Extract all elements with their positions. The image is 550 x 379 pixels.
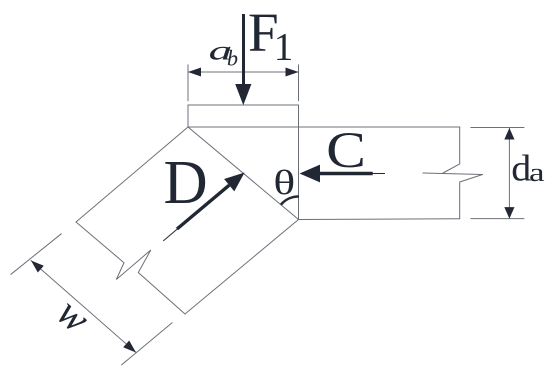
cap plate top edge: [188, 104, 299, 106]
cap plate left edge: [187, 105, 189, 127]
angle theta arc: [281, 196, 299, 204]
force D arrow: [163, 173, 244, 241]
force F1 arrow: [235, 14, 251, 105]
diagonal end face line: [188, 127, 299, 220]
diagonal member upper-left edge: [76, 127, 188, 222]
chord bottom edge: [299, 218, 460, 221]
dimension d_a extension lines: [471, 127, 524, 129]
dimension w extension lines: [11, 234, 61, 274]
diagonal member lower-right edge: [185, 220, 299, 315]
dimension a_b arrowheads: [188, 68, 299, 77]
force C arrow: [300, 165, 386, 183]
chord top edge / cap bottom: [188, 126, 460, 128]
svg-text:C: C: [326, 123, 366, 179]
diagonal member break cut: [76, 222, 185, 314]
dimension w arrowheads: [31, 261, 136, 353]
dimension a_b line: [188, 71, 299, 73]
dimension d_a line: [508, 128, 510, 219]
svg-text:θ: θ: [273, 163, 295, 202]
vertical joint line: [298, 105, 300, 220]
svg-text:D: D: [164, 148, 208, 217]
dimension w line: [31, 261, 136, 353]
dimension a_b extension lines: [187, 65, 189, 101]
chord break cut: [443, 127, 460, 173]
svg-text:1: 1: [274, 26, 294, 69]
svg-text:b: b: [227, 46, 238, 71]
svg-text:a: a: [529, 157, 545, 186]
dimension d_a arrowheads: [504, 128, 514, 219]
